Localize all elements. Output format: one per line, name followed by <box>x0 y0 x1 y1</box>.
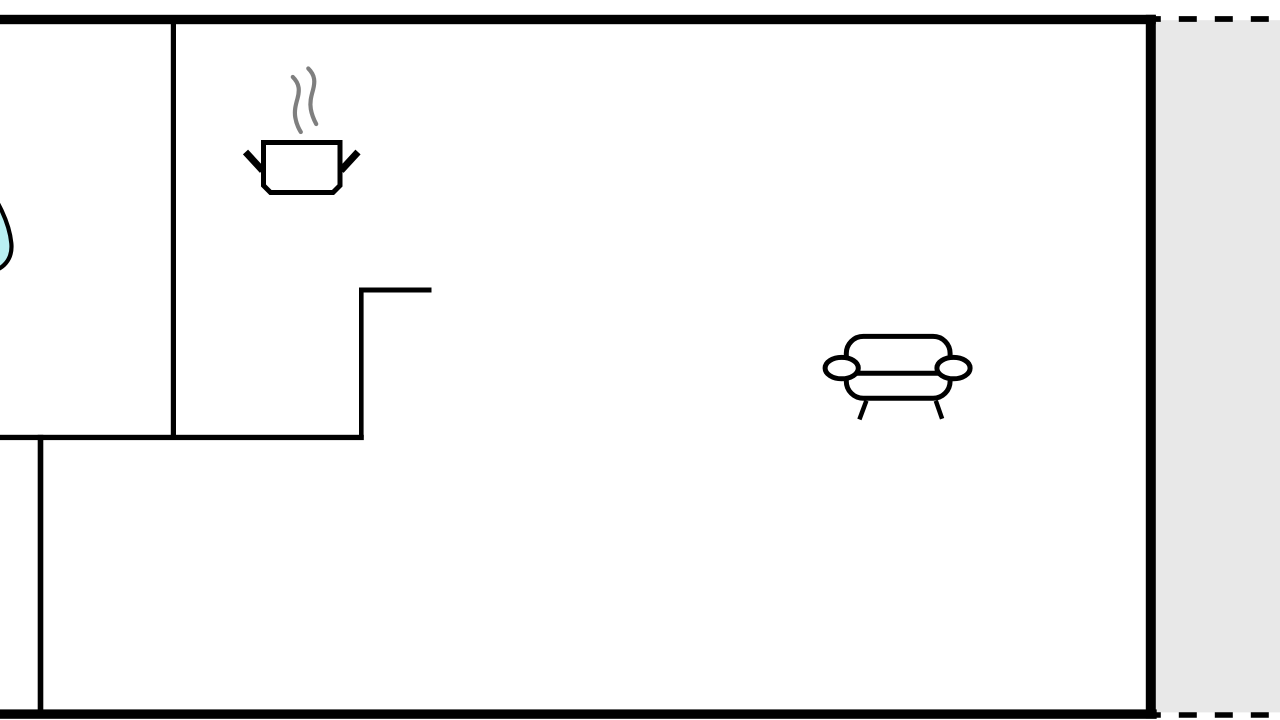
wire interior stub horizontal wall <box>359 288 432 293</box>
pot left handle <box>246 152 263 171</box>
wire top outer wall <box>0 15 1156 24</box>
water drop icon <box>0 185 11 271</box>
wire interior vertical wall left room <box>171 24 176 440</box>
wire interior step vertical wall <box>359 288 364 438</box>
wire lower-left vertical wall <box>38 435 44 718</box>
couch right leg <box>936 401 942 419</box>
couch right armrest <box>937 357 970 378</box>
pot body (stove symbol) <box>264 143 341 193</box>
wire bottom outer wall <box>0 709 1157 718</box>
couch left leg <box>859 401 866 420</box>
steam line left (pot) <box>293 77 301 132</box>
couch left armrest <box>825 357 858 378</box>
wire right outer wall <box>1146 15 1156 719</box>
couch seat line <box>855 371 942 376</box>
steam line right (pot) <box>308 69 316 125</box>
balcony / terrace gray area <box>1155 20 1280 712</box>
wire top dashed wall (balcony) <box>1143 16 1280 22</box>
pot right handle <box>341 152 358 171</box>
wire bottom dashed wall (balcony) <box>1143 712 1280 718</box>
couch body <box>846 336 950 398</box>
wire interior horizontal wall <box>0 435 364 440</box>
